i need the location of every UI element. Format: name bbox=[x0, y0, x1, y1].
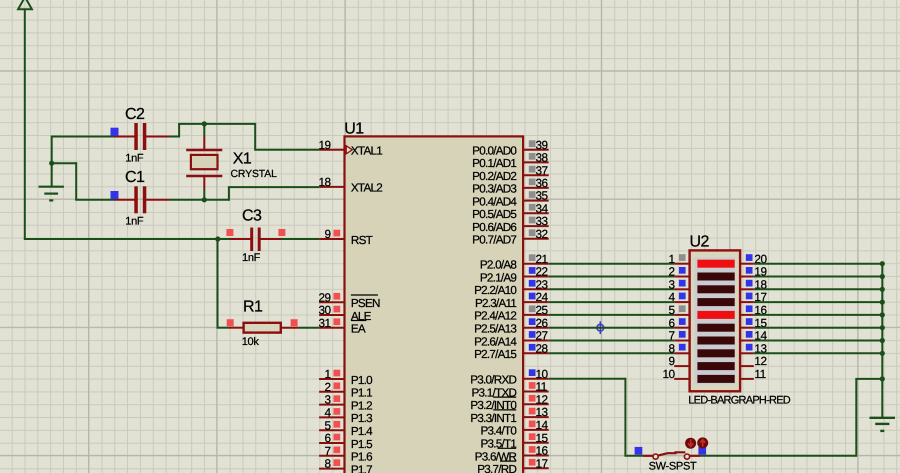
junction bus row 13 bbox=[880, 351, 885, 356]
LED bar 1 lit bbox=[697, 260, 734, 268]
label C3 bbox=[242, 208, 262, 225]
junction bus row 14 bbox=[880, 338, 885, 343]
svg-text:10k: 10k bbox=[242, 336, 260, 348]
svg-text:9: 9 bbox=[325, 227, 331, 241]
LED bar 4 off bbox=[697, 298, 734, 306]
svg-text:P2.0/A8: P2.0/A8 bbox=[480, 259, 517, 272]
svg-text:19: 19 bbox=[318, 138, 330, 152]
svg-text:C3: C3 bbox=[242, 208, 262, 225]
svg-text:P2.2/A10: P2.2/A10 bbox=[474, 284, 517, 297]
wire power rail down left side bbox=[24, 9, 26, 239]
U1 pin 4 P1.3 bbox=[319, 406, 372, 426]
svg-text:28: 28 bbox=[536, 341, 549, 355]
svg-text:LED-BARGRAPH-RED: LED-BARGRAPH-RED bbox=[688, 394, 790, 406]
svg-text:P3.0/RXD: P3.0/RXD bbox=[470, 374, 516, 387]
wire switch to ground bus bbox=[701, 379, 883, 457]
wire bargraph pin 14 to ground bus bbox=[754, 340, 883, 342]
wire P2.2/A10 to bargraph pin 3 bbox=[549, 288, 675, 290]
svg-text:11: 11 bbox=[754, 367, 765, 381]
LED bar 6 off bbox=[697, 324, 734, 332]
wire bargraph pin 19 to ground bus bbox=[754, 276, 883, 278]
U1 pin 12 P3.2/INT0 bbox=[470, 392, 548, 412]
U1 pin 26 P2.5/A13 bbox=[474, 316, 549, 336]
svg-text:P0.1/AD1: P0.1/AD1 bbox=[472, 157, 516, 170]
U1 pin 38 P0.1/AD1 bbox=[472, 151, 549, 171]
U1 pin 34 P0.5/AD5 bbox=[472, 201, 549, 221]
wire C2 left to ground node bbox=[52, 136, 115, 164]
U2 pin 17 bbox=[740, 290, 766, 304]
ground symbol (right) bbox=[870, 418, 896, 431]
U2 pin 20 bbox=[740, 252, 767, 266]
svg-text:P3.4/T0: P3.4/T0 bbox=[481, 425, 518, 438]
svg-text:C2: C2 bbox=[125, 106, 145, 123]
svg-text:U2: U2 bbox=[690, 234, 710, 251]
IC U1 body (80C51 MCU) bbox=[345, 136, 524, 473]
U1 pin 3 P1.2 bbox=[319, 393, 372, 413]
svg-text:10: 10 bbox=[662, 367, 675, 381]
wire RST row from rail to C3 junction bbox=[24, 238, 218, 240]
svg-text:P2.6/A14: P2.6/A14 bbox=[474, 335, 517, 348]
svg-text:P2.3/A11: P2.3/A11 bbox=[475, 297, 516, 310]
svg-text:1nF: 1nF bbox=[125, 216, 144, 228]
U2 pin 18 bbox=[740, 277, 767, 291]
U1 pin 28 P2.7/A15 bbox=[474, 341, 549, 361]
U2 pin 3 bbox=[669, 277, 690, 291]
label C2 bbox=[125, 106, 145, 123]
U1 pin 13 P3.3/INT1 bbox=[470, 405, 548, 425]
U1 pin 29 PSEN bbox=[318, 290, 380, 310]
U2 pin 1 bbox=[669, 252, 690, 266]
U1 pin 24 P2.3/A11 bbox=[475, 290, 549, 310]
sheet origin marker bbox=[594, 321, 607, 334]
U1 pin 11 P3.1/TXD bbox=[472, 380, 549, 400]
svg-text:R1: R1 bbox=[243, 299, 263, 316]
svg-text:P0.0/AD0: P0.0/AD0 bbox=[472, 145, 517, 158]
svg-text:P1.4: P1.4 bbox=[351, 425, 373, 438]
wire P2.4/A12 to bargraph pin 5 bbox=[549, 314, 675, 316]
junction bus row 19 bbox=[880, 274, 885, 279]
LED bar 9 off bbox=[697, 362, 734, 370]
label X1 bbox=[233, 151, 252, 168]
U1 pin 27 P2.6/A14 bbox=[474, 329, 549, 349]
capacitor C3 bbox=[218, 228, 286, 252]
U2 pin 11 bbox=[740, 367, 766, 381]
value LED-BARGRAPH-RED bbox=[688, 394, 790, 406]
switch SW-SPST bbox=[635, 447, 707, 459]
U1 pin 35 P0.4/AD4 bbox=[472, 189, 549, 209]
power terminal (arrow up) bbox=[18, 0, 32, 9]
U1 pin 25 P2.4/A12 bbox=[474, 303, 549, 323]
svg-text:P0.7/AD7: P0.7/AD7 bbox=[472, 234, 516, 247]
svg-text:P1.0: P1.0 bbox=[351, 374, 373, 387]
U2 pin 7 bbox=[669, 329, 690, 343]
label U2 bbox=[690, 234, 710, 251]
U2 pin 15 bbox=[740, 316, 767, 330]
wire top rail down to XTAL1 pin bbox=[254, 123, 319, 150]
value 1nF (C1) bbox=[125, 216, 144, 228]
value 10k bbox=[242, 336, 260, 348]
LED bar 7 off bbox=[697, 337, 734, 345]
svg-text:P0.2/AD2: P0.2/AD2 bbox=[472, 170, 516, 183]
U1 pin 36 P0.3/AD3 bbox=[472, 176, 549, 196]
svg-text:PSEN: PSEN bbox=[351, 297, 380, 310]
U1 pin 2 P1.1 bbox=[319, 380, 372, 400]
ground symbol (left) bbox=[39, 163, 64, 200]
label SW-SPST bbox=[649, 461, 697, 473]
svg-text:P3.7/RD: P3.7/RD bbox=[477, 463, 516, 473]
U2 pin 13 bbox=[740, 341, 767, 355]
U1 pin 37 P0.2/AD2 bbox=[472, 163, 549, 183]
svg-text:P2.1/A9: P2.1/A9 bbox=[480, 271, 517, 284]
U2 pin 8 bbox=[669, 341, 690, 355]
wire C1 right to crystal bottom / XTAL2 bbox=[169, 187, 319, 201]
crystal X1 bbox=[186, 125, 222, 200]
U1 pin 8 P1.7 bbox=[319, 457, 372, 473]
U1 pin 15 P3.5/T1 bbox=[481, 431, 549, 451]
U1 pin 32 P0.7/AD7 bbox=[472, 227, 549, 247]
svg-text:P0.4/AD4: P0.4/AD4 bbox=[472, 195, 517, 208]
U1 pin 33 P0.6/AD6 bbox=[472, 214, 549, 234]
wire C3 to RST pin bbox=[281, 238, 319, 240]
U1 pin 14 P3.4/T0 bbox=[481, 418, 549, 438]
junction bus row 16 bbox=[880, 312, 885, 317]
svg-text:8: 8 bbox=[325, 457, 332, 471]
label R1 bbox=[243, 299, 263, 316]
wire bargraph pin 18 to ground bus bbox=[754, 288, 883, 290]
wire P3.0/RXD to switch bbox=[549, 378, 626, 456]
wire P2.3/A11 to bargraph pin 4 bbox=[549, 301, 675, 303]
U1 pin 22 P2.1/A9 bbox=[480, 265, 549, 285]
junction bus row 15 bbox=[880, 325, 885, 330]
U2 pin 4 bbox=[669, 290, 690, 304]
U1 pin 31 EA bbox=[318, 316, 366, 336]
svg-text:P2.7/A15: P2.7/A15 bbox=[474, 348, 517, 361]
resistor R1 bbox=[227, 319, 299, 332]
svg-text:P0.5/AD5: P0.5/AD5 bbox=[472, 208, 517, 221]
wire R1 to EA pin bbox=[299, 327, 319, 329]
switch actuator buttons bbox=[685, 437, 708, 448]
svg-text:P1.2: P1.2 bbox=[351, 399, 372, 412]
junction bus row 20 bbox=[880, 261, 885, 266]
U1 pin 16 P3.6/WR bbox=[475, 444, 549, 464]
LED bar 5 lit bbox=[697, 311, 734, 319]
junction bus row 17 bbox=[880, 300, 885, 305]
svg-text:P0.3/AD3: P0.3/AD3 bbox=[472, 183, 516, 196]
U2 pin 10 bbox=[662, 367, 689, 381]
U1 pin 18 XTAL2 bbox=[318, 175, 382, 195]
U2 pin 2 bbox=[669, 265, 690, 279]
junction crystal top bbox=[202, 121, 207, 126]
svg-text:C1: C1 bbox=[125, 169, 145, 186]
svg-text:P0.6/AD6: P0.6/AD6 bbox=[472, 221, 516, 234]
wire P2.1/A9 to bargraph pin 2 bbox=[549, 276, 675, 278]
wire C2 right up to crystal top rail bbox=[169, 124, 255, 138]
svg-text:P2.4/A12: P2.4/A12 bbox=[474, 310, 516, 323]
capacitor C1 bbox=[111, 186, 170, 213]
wire P2.6/A14 to bargraph pin 7 bbox=[549, 340, 675, 342]
svg-text:P1.5: P1.5 bbox=[351, 438, 373, 451]
U1 pin 1 P1.0 bbox=[319, 367, 373, 387]
junction bus row 18 bbox=[880, 287, 885, 292]
LED bargraph U2 body bbox=[690, 250, 741, 391]
U2 pin 5 bbox=[669, 303, 690, 317]
wire bargraph pin 15 to ground bus bbox=[754, 327, 883, 329]
U1 pin 39 P0.0/AD0 bbox=[472, 138, 549, 158]
wire junction down to R1 bbox=[217, 238, 229, 328]
svg-text:P1.1: P1.1 bbox=[351, 387, 372, 400]
wire P2.5/A13 to bargraph pin 6 bbox=[549, 327, 675, 329]
U2 pin 19 bbox=[740, 265, 766, 279]
junction RST / C3 / R1 bbox=[215, 236, 220, 241]
U1 pin 23 P2.2/A10 bbox=[474, 277, 549, 297]
svg-text:31: 31 bbox=[318, 316, 330, 330]
svg-text:1nF: 1nF bbox=[242, 252, 261, 264]
value 1nF (C3) bbox=[242, 252, 261, 264]
LED bar 2 off bbox=[697, 273, 734, 281]
wire ground node to C1 row bbox=[52, 162, 115, 200]
svg-text:P1.7: P1.7 bbox=[351, 463, 372, 473]
wire bargraph pin 16 to ground bus bbox=[754, 314, 883, 316]
U1 pin 10 P3.0/RXD bbox=[470, 367, 548, 387]
LED bar 3 off bbox=[697, 285, 734, 293]
U2 pin 9 bbox=[669, 354, 690, 368]
svg-text:U1: U1 bbox=[344, 120, 364, 137]
svg-text:X1: X1 bbox=[233, 151, 252, 168]
svg-text:18: 18 bbox=[318, 175, 331, 189]
U2 pin 6 bbox=[669, 316, 690, 330]
wire P2.0/A8 to bargraph pin 1 bbox=[549, 263, 675, 265]
LED bar 10 off bbox=[697, 375, 734, 383]
U1 pin 30 ALE bbox=[318, 303, 371, 323]
wire bargraph pin 17 to ground bus bbox=[754, 301, 883, 303]
svg-text:P3.3/INT1: P3.3/INT1 bbox=[470, 412, 516, 425]
label C1 bbox=[125, 169, 145, 186]
svg-text:P1.3: P1.3 bbox=[351, 412, 372, 425]
svg-text:XTAL2: XTAL2 bbox=[351, 182, 382, 195]
U1 pin 19 XTAL1 bbox=[318, 138, 382, 158]
U1 pin 17 P3.7/RD bbox=[477, 456, 548, 473]
LED bar 8 off bbox=[697, 349, 734, 357]
svg-text:CRYSTAL: CRYSTAL bbox=[231, 169, 278, 180]
value 1nF (C2) bbox=[125, 152, 144, 164]
wire bargraph pin 20 to ground bus bbox=[754, 263, 883, 265]
junction ground node bbox=[49, 161, 54, 166]
label U1 bbox=[344, 120, 364, 137]
value CRYSTAL bbox=[231, 169, 278, 180]
svg-text:P1.6: P1.6 bbox=[351, 451, 372, 464]
capacitor C2 bbox=[111, 123, 170, 150]
junction crystal bottom bbox=[202, 197, 207, 202]
U1 pin 9 RST bbox=[319, 227, 373, 247]
svg-text:1nF: 1nF bbox=[125, 152, 144, 164]
svg-text:32: 32 bbox=[536, 227, 548, 241]
U1 pin 6 P1.5 bbox=[319, 431, 373, 451]
wire P2.7/A15 to bargraph pin 8 bbox=[549, 352, 675, 354]
svg-text:XTAL1: XTAL1 bbox=[351, 145, 382, 158]
U1 pin 5 P1.4 bbox=[319, 418, 373, 438]
wire ground bus vertical bbox=[881, 264, 883, 418]
U2 pin 14 bbox=[740, 329, 767, 343]
svg-text:RST: RST bbox=[351, 234, 373, 247]
U2 pin 12 bbox=[740, 354, 766, 368]
wire bargraph pin 13 to ground bus bbox=[754, 352, 883, 354]
U2 pin 16 bbox=[740, 303, 767, 317]
svg-text:EA: EA bbox=[351, 323, 366, 336]
U1 pin 21 P2.0/A8 bbox=[480, 252, 549, 272]
wire into switch bbox=[624, 455, 643, 457]
svg-text:SW-SPST: SW-SPST bbox=[649, 461, 697, 473]
svg-text:17: 17 bbox=[536, 456, 548, 470]
junction bus switch return bbox=[880, 376, 885, 381]
svg-text:P2.5/A13: P2.5/A13 bbox=[474, 323, 516, 336]
U1 pin 7 P1.6 bbox=[319, 444, 372, 464]
